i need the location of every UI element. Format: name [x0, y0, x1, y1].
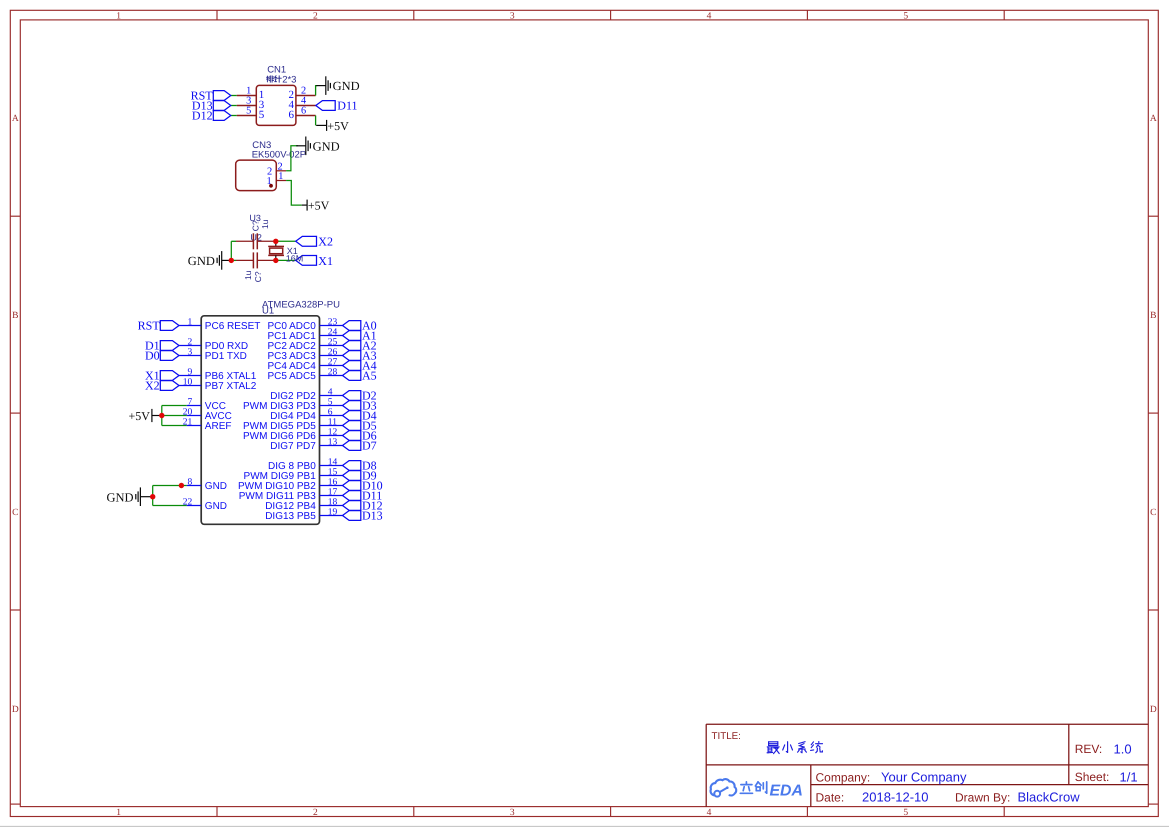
net flag X2: [160, 381, 179, 391]
svg-text:A5: A5: [362, 369, 377, 383]
wire left vertical between capacitors: [230, 241, 232, 260]
svg-text:DIG7 PD7: DIG7 PD7: [270, 441, 316, 452]
column tick 1 top: [216, 10, 218, 20]
CN1 pin 3: [237, 105, 256, 107]
column tick 4 bottom: [806, 807, 808, 817]
CN1 pin 5: [237, 115, 256, 117]
svg-text:GND: GND: [205, 481, 227, 492]
wire GND to pin22: [153, 505, 187, 507]
U1 pin 21 AREF: [187, 425, 202, 427]
junction GND pin8 wire: [179, 483, 184, 488]
connector CN1 body: [256, 85, 296, 125]
svg-text:GND: GND: [333, 79, 360, 93]
column tick 5 bottom: [1003, 807, 1005, 817]
svg-text:6: 6: [289, 109, 295, 121]
CN1 pin 3 wire: [231, 105, 237, 107]
svg-text:1: 1: [116, 12, 121, 22]
row tick 3 left: [10, 609, 20, 611]
U1 pin 2 PD0 RXD: [179, 345, 201, 347]
svg-text:6: 6: [301, 106, 306, 117]
row tick 1 left: [10, 215, 20, 217]
title block divider under sheet row: [811, 784, 1149, 786]
svg-text:6: 6: [328, 408, 333, 418]
svg-text:27: 27: [328, 358, 338, 368]
CN1 pin 4: [296, 105, 316, 107]
svg-text:15: 15: [328, 468, 338, 478]
svg-text:2018-12-10: 2018-12-10: [862, 790, 929, 805]
wire GND rail to top capacitor: [231, 240, 236, 242]
power +5V at CN3 pin1: [302, 199, 330, 213]
svg-text:1/1: 1/1: [1120, 769, 1138, 784]
wire +5V vertical rail: [161, 406, 163, 426]
U1 pin 6 DIG4 PD4: [320, 415, 343, 417]
row tick 3 right: [1148, 609, 1158, 611]
svg-text:13: 13: [328, 438, 338, 448]
net flag D5: [343, 421, 361, 431]
net flag D9: [343, 471, 361, 481]
svg-text:D13: D13: [362, 509, 383, 523]
svg-text:B: B: [12, 311, 18, 321]
svg-text:GND: GND: [107, 490, 134, 504]
svg-text:X2: X2: [318, 235, 333, 249]
wire CN3 pin1 to +5V: [286, 181, 302, 206]
net flag D11: [316, 101, 335, 111]
svg-text:1u: 1u: [243, 270, 253, 280]
row tick 4 right: [1148, 803, 1158, 805]
net flag RST: [213, 91, 231, 101]
svg-text:Drawn By:: Drawn By:: [955, 791, 1010, 805]
net flag D1: [160, 341, 179, 351]
net flag RST: [160, 321, 179, 331]
U1 pin 8 GND: [187, 485, 202, 487]
wire CN1 pin2 to GND: [316, 86, 318, 96]
svg-text:5: 5: [903, 12, 908, 22]
wire crystal bottom to X1 flag: [276, 259, 296, 261]
wire GND vertical rail: [152, 486, 154, 506]
net flag A3: [343, 351, 361, 361]
power +5V at CN1 pin6: [316, 119, 349, 133]
net flag X1: [296, 256, 317, 266]
title block divider logo cell: [810, 765, 812, 807]
svg-text:Sheet:: Sheet:: [1075, 770, 1110, 784]
U1 pin 9 PB6 XTAL1: [179, 375, 201, 377]
svg-text:24: 24: [328, 328, 338, 338]
net flag X2: [296, 236, 317, 246]
svg-text:8: 8: [188, 478, 193, 488]
capacitor C2: [236, 252, 276, 268]
column tick 1 bottom: [216, 807, 218, 817]
U1 pin 12 PWM DIG6 PD6: [320, 435, 343, 437]
column tick 4 top: [806, 10, 808, 20]
ground GND at CN1 pin2: [316, 76, 359, 95]
U1 pin 3 PD1 TXD: [179, 355, 201, 357]
svg-text:19: 19: [328, 508, 338, 518]
title block top border: [706, 723, 1148, 725]
svg-text:A: A: [12, 114, 19, 124]
svg-text:+5V: +5V: [128, 409, 150, 423]
svg-text:D: D: [1150, 705, 1157, 715]
net flag D13: [343, 511, 361, 521]
svg-text:4: 4: [707, 808, 712, 818]
wire GND to pin8: [153, 485, 187, 487]
svg-text:GND: GND: [188, 254, 215, 268]
svg-text:5: 5: [328, 398, 333, 408]
svg-text:GND: GND: [205, 501, 227, 512]
junction crystal top: [273, 239, 278, 244]
svg-text:10: 10: [183, 378, 193, 388]
svg-text:RST: RST: [138, 319, 161, 333]
svg-text:7: 7: [188, 398, 193, 408]
svg-text:2: 2: [313, 808, 318, 818]
row tick 2 right: [1148, 412, 1158, 414]
U1 pin 11 PWM DIG5 PD5: [320, 425, 343, 427]
svg-text:C: C: [12, 508, 18, 518]
svg-text:X1: X1: [318, 254, 333, 268]
U1 pin 17 PWM DIG11 PB3: [320, 495, 343, 497]
CN1 pin 5 wire: [231, 115, 237, 117]
svg-text:+5V: +5V: [327, 119, 349, 133]
column tick 3 bottom: [610, 807, 612, 817]
svg-text:PC5 ADC5: PC5 ADC5: [267, 371, 316, 382]
net flag D8: [343, 461, 361, 471]
svg-text:14: 14: [328, 458, 338, 468]
svg-text:26: 26: [328, 348, 338, 358]
svg-text:C: C: [1150, 508, 1156, 518]
svg-text:Your Company: Your Company: [881, 769, 967, 784]
svg-text:25: 25: [328, 338, 338, 348]
U1 pin 13 DIG7 PD7: [320, 445, 343, 447]
junction GND capacitors: [229, 258, 234, 263]
ground GND at crystal: [188, 251, 231, 270]
svg-text:2*3: 2*3: [282, 74, 296, 85]
U1 pin 20 AVCC: [187, 415, 202, 417]
svg-text:1.0: 1.0: [1114, 741, 1132, 756]
svg-text:2: 2: [188, 338, 193, 348]
power +5V at U1: [128, 409, 161, 423]
svg-text:PD1 TXD: PD1 TXD: [205, 351, 247, 362]
svg-text:4: 4: [328, 388, 333, 398]
svg-text:AREF: AREF: [205, 421, 232, 432]
svg-text:D11: D11: [337, 99, 357, 113]
title text 最小系统: [767, 742, 779, 754]
U1 pin 27 PC4 ADC4: [320, 365, 343, 367]
row tick 2 left: [10, 412, 20, 414]
svg-text:DIG13 PB5: DIG13 PB5: [265, 511, 316, 522]
CN1 pin 1 wire: [231, 95, 237, 97]
junction GND rail: [150, 494, 155, 499]
U1 pin 16 PWM DIG10 PB2: [320, 485, 343, 487]
connector CN3 body: [236, 160, 277, 191]
U1 pin 22 GND: [187, 505, 202, 507]
wire +5V to pin7 VCC: [162, 405, 187, 407]
svg-text:B: B: [1150, 311, 1156, 321]
net flag D3: [343, 401, 361, 411]
svg-text:1: 1: [116, 808, 121, 818]
svg-text:23: 23: [328, 318, 338, 328]
net flag A1: [343, 331, 361, 341]
wire GND rail to bottom capacitor: [231, 259, 236, 261]
wire CN1 pin6 to +5V: [315, 116, 317, 126]
row tick 4 left: [10, 803, 20, 805]
wire crystal top to X2 flag: [276, 240, 296, 242]
net flag D2: [343, 391, 361, 401]
column tick 2 top: [413, 10, 415, 20]
title block divider rev column: [1068, 724, 1070, 784]
CN1 pin 2: [296, 95, 316, 97]
svg-text:PC6 RESET: PC6 RESET: [205, 321, 261, 332]
capacitor C3: [236, 233, 276, 249]
net flag A2: [343, 341, 361, 351]
svg-text:16: 16: [328, 478, 338, 488]
svg-text:D0: D0: [145, 349, 160, 363]
U1 pin 18 DIG12 PB4: [320, 505, 343, 507]
CN1 pin 6: [296, 115, 316, 117]
U1 pin 24 PC1 ADC1: [320, 335, 343, 337]
svg-text:EK500V-02P: EK500V-02P: [252, 149, 306, 160]
svg-text:EDA: EDA: [770, 782, 803, 799]
U1 pin 15 PWM DIG9 PB1: [320, 475, 343, 477]
canvas bottom edge: [0, 825, 1169, 827]
column tick 3 top: [610, 10, 612, 20]
U1 pin 5 PWM DIG3 PD3: [320, 405, 343, 407]
svg-text:A: A: [1150, 114, 1157, 124]
svg-text:3: 3: [510, 808, 515, 818]
svg-text:BlackCrow: BlackCrow: [1018, 790, 1081, 805]
svg-text:3: 3: [510, 12, 515, 22]
svg-text:PB7 XTAL2: PB7 XTAL2: [205, 381, 257, 392]
CN1 pin 1: [237, 95, 256, 97]
svg-text:3: 3: [188, 348, 193, 358]
wire +5V to pin21 AREF: [162, 425, 187, 427]
net flag D11: [343, 491, 361, 501]
logo text 立创EDA: [740, 782, 752, 793]
svg-text:+5V: +5V: [308, 199, 330, 213]
svg-text:11: 11: [328, 418, 337, 428]
svg-text:2: 2: [313, 12, 318, 22]
crystal X1: [268, 241, 284, 260]
IC U1 body: [201, 316, 319, 525]
U1 pin 19 DIG13 PB5: [320, 515, 343, 517]
column tick 5 top: [1003, 10, 1005, 20]
svg-text:5: 5: [903, 808, 908, 818]
svg-text:D7: D7: [362, 439, 377, 453]
net flag D12: [213, 111, 231, 121]
net flag X1: [160, 371, 179, 381]
svg-text:16M: 16M: [286, 253, 304, 263]
ground GND at U1: [107, 487, 153, 506]
svg-text:9: 9: [188, 368, 193, 378]
net flag D0: [160, 351, 179, 361]
svg-text:18: 18: [328, 498, 338, 508]
CN3 pin1 marker dot: [269, 184, 273, 188]
svg-text:12: 12: [328, 428, 338, 438]
svg-text:REV:: REV:: [1075, 742, 1103, 756]
svg-text:5: 5: [246, 106, 251, 117]
CN3 pin 1: [276, 180, 286, 182]
svg-text:4: 4: [707, 12, 712, 22]
net flag A0: [343, 321, 361, 331]
svg-text:GND: GND: [313, 139, 340, 153]
svg-text:C?: C?: [253, 271, 263, 282]
CN3 pin 2: [276, 170, 286, 172]
svg-text:17: 17: [328, 488, 338, 498]
U1 pin 7 VCC: [187, 405, 202, 407]
svg-text:D12: D12: [192, 109, 213, 123]
U1 pin 10 PB7 XTAL2: [179, 385, 201, 387]
U1 pin 26 PC3 ADC3: [320, 355, 343, 357]
svg-text:1u: 1u: [260, 219, 270, 229]
U1 pin 14 DIG 8 PB0: [320, 465, 343, 467]
logo cloud icon: [711, 779, 737, 797]
svg-text:1: 1: [278, 171, 283, 182]
svg-text:5: 5: [259, 109, 265, 121]
net flag A5: [343, 371, 361, 381]
U1 pin 23 PC0 ADC0: [320, 325, 343, 327]
wire CN3 pin2 to GND: [286, 146, 298, 171]
U1 pin 1 PC6 RESET: [179, 325, 201, 327]
svg-text:X2: X2: [145, 379, 160, 393]
svg-text:Company:: Company:: [816, 770, 871, 784]
junction +5V rail: [159, 413, 164, 418]
svg-text:Date:: Date:: [816, 791, 845, 805]
title block divider under title row: [706, 764, 1148, 766]
net flag D7: [343, 441, 361, 451]
svg-text:D: D: [12, 705, 19, 715]
connector CN1 value label 排针2*3: [267, 76, 274, 82]
net flag A4: [343, 361, 361, 371]
U1 pin 25 PC2 ADC2: [320, 345, 343, 347]
wire +5V to pin20 AVCC: [162, 415, 187, 417]
net flag D13: [213, 101, 231, 111]
ground GND at CN3 pin2: [296, 137, 339, 156]
U1 pin 4 DIG2 PD2: [320, 395, 343, 397]
junction crystal bottom: [273, 258, 278, 263]
U1 pin 28 PC5 ADC5: [320, 375, 343, 377]
net flag D12: [343, 501, 361, 511]
svg-text:TITLE:: TITLE:: [712, 731, 741, 742]
net flag D4: [343, 411, 361, 421]
row tick 1 right: [1148, 215, 1158, 217]
svg-text:1: 1: [188, 318, 193, 328]
net flag D10: [343, 481, 361, 491]
column tick 2 bottom: [413, 807, 415, 817]
svg-text:28: 28: [328, 368, 338, 378]
net flag D6: [343, 431, 361, 441]
title block left border: [705, 724, 707, 807]
